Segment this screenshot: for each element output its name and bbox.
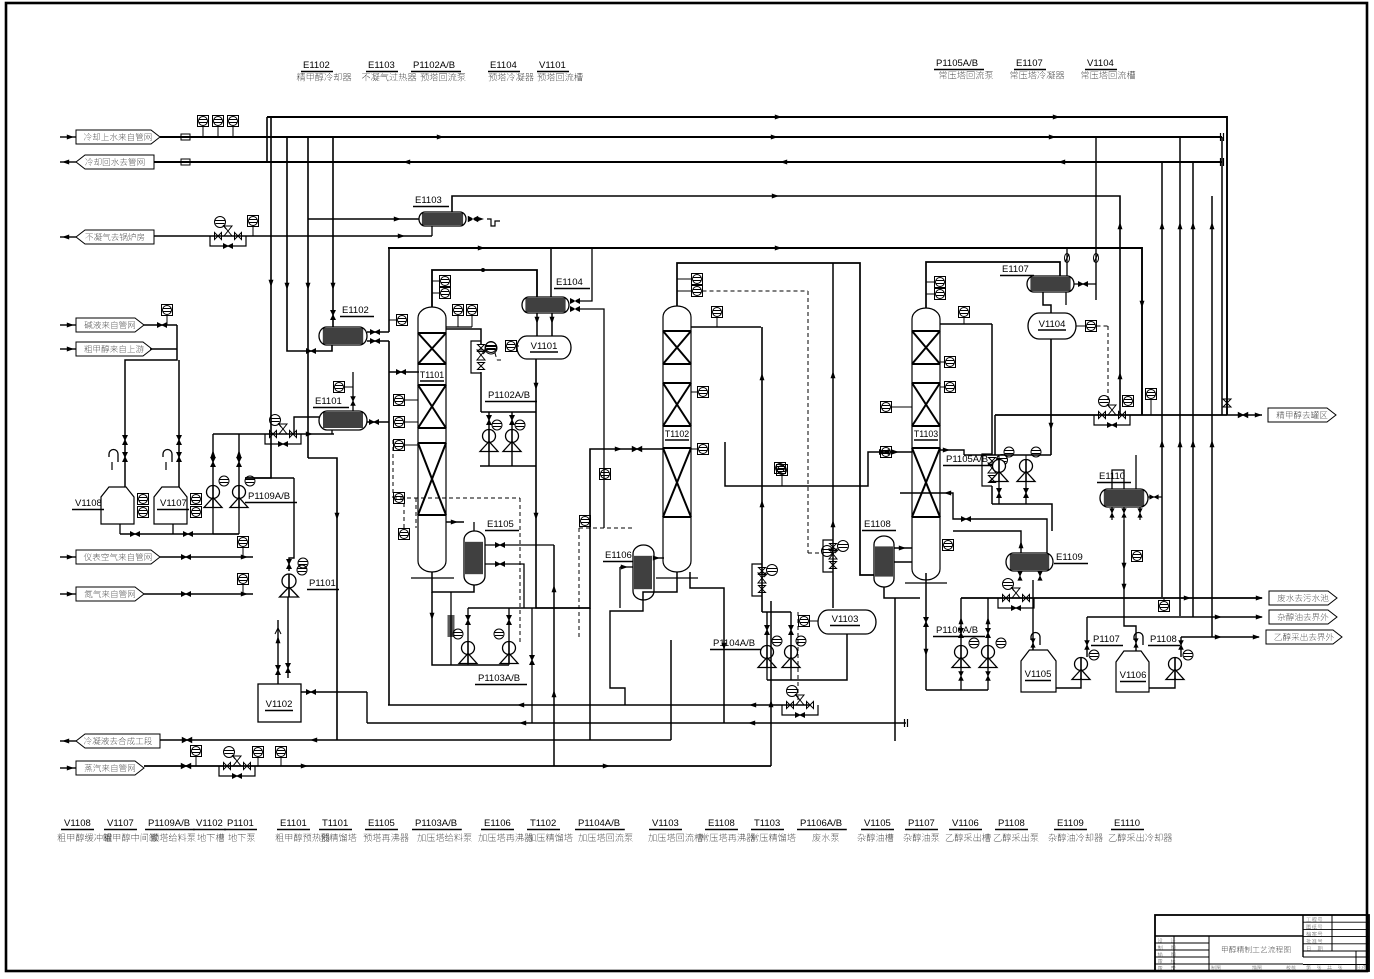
tank V1106 乙醇采出槽 bbox=[1116, 651, 1149, 692]
wire instrument air line bbox=[160, 556, 253, 558]
wire E1101 feed header y434 bbox=[213, 433, 334, 435]
heat exchanger E1105 预塔再沸器 bbox=[464, 531, 485, 585]
wire tank bottoms header bbox=[119, 524, 121, 534]
stream flag 乙醇采出去界外 bbox=[1266, 630, 1342, 644]
svg-text:V1105: V1105 bbox=[1025, 669, 1052, 680]
wire T1101 overhead bbox=[432, 270, 537, 307]
wire E1101 top vent bbox=[352, 372, 354, 411]
wire T1103 reflux riser bbox=[991, 324, 993, 455]
wire T1103 side outlet to pumps bbox=[940, 450, 964, 455]
svg-text:V1106: V1106 bbox=[1120, 670, 1147, 681]
svg-text:V1101: V1101 bbox=[531, 341, 558, 352]
dashes instrument lines center bbox=[393, 497, 520, 499]
svg-text:E1103: E1103 bbox=[368, 60, 395, 71]
svg-text:V1102: V1102 bbox=[266, 699, 293, 710]
wire riser x271 bbox=[266, 117, 268, 162]
svg-text:E1104: E1104 bbox=[490, 60, 517, 71]
wire riser x1212 bbox=[1211, 196, 1213, 637]
svg-text:E1110: E1110 bbox=[1114, 818, 1140, 829]
feed valves bbox=[122, 452, 128, 462]
svg-text:T1103: T1103 bbox=[754, 818, 780, 829]
wire T1102 sidedraw bbox=[691, 326, 761, 328]
wire top vent header y117 bbox=[267, 117, 1227, 415]
svg-text:V1103: V1103 bbox=[832, 614, 859, 625]
stream flag 精甲醇去罐区 bbox=[1268, 408, 1336, 422]
instrument V1104 bbox=[1086, 321, 1097, 332]
svg-text:E1109: E1109 bbox=[1057, 818, 1084, 829]
wire riser x532 bbox=[531, 608, 533, 723]
wire condensate header y723 bbox=[367, 722, 906, 724]
wire E1106 vapor return bbox=[654, 557, 664, 559]
wire P1102 discharge bbox=[488, 412, 490, 429]
wire product line y415 bbox=[994, 415, 996, 455]
wire steam line y766 bbox=[144, 765, 771, 767]
wire T1103 sidedraw bbox=[940, 323, 992, 325]
wire riser x333 to E1102 bbox=[332, 137, 334, 328]
svg-text:V1105: V1105 bbox=[864, 818, 891, 829]
wire T1101 bottom baseline bbox=[411, 577, 454, 579]
instrument V1101 bbox=[506, 341, 517, 352]
wire P1108 discharge to ethanol line bbox=[1180, 637, 1182, 657]
wire E1104 to V1101 bbox=[536, 313, 538, 336]
wire T1103 bottoms bbox=[925, 573, 927, 690]
svg-text:E1102: E1102 bbox=[303, 60, 330, 71]
wire riser jog x308 to x337 bbox=[308, 458, 337, 740]
wire P1106 discharge bbox=[960, 598, 962, 645]
wire E1101 inlet riser bbox=[294, 417, 319, 434]
svg-text:V1102: V1102 bbox=[196, 818, 223, 829]
control valve station bbox=[210, 236, 246, 246]
wire E1107 to V1104 bbox=[1043, 292, 1051, 313]
control valve station bbox=[998, 598, 1034, 608]
wire condensate header y705 bbox=[388, 704, 810, 706]
svg-text:P1105A/B: P1105A/B bbox=[936, 58, 978, 69]
stream flag 仪表空气来自管网 bbox=[76, 550, 160, 564]
wire T1101 reflux bbox=[446, 329, 481, 344]
control valve station bbox=[219, 766, 255, 776]
svg-text:E1105: E1105 bbox=[487, 519, 514, 530]
stream flag 蒸汽来自管网 bbox=[76, 761, 144, 775]
column T1101 预精馏塔 bbox=[418, 307, 446, 572]
wire riser x271 upper bbox=[270, 117, 272, 162]
svg-text:E1105: E1105 bbox=[368, 818, 395, 829]
heat exchanger E1108 常压塔再沸器 bbox=[874, 536, 894, 587]
wire P1109 discharge bbox=[212, 440, 214, 485]
svg-text:E1104: E1104 bbox=[556, 277, 583, 288]
wire T1102 overhead bbox=[677, 263, 874, 575]
vent hooks bbox=[109, 450, 118, 462]
svg-text:P1107: P1107 bbox=[908, 818, 935, 829]
wire E1107 outlet bbox=[1074, 283, 1096, 285]
wire crossover header y486 bbox=[725, 442, 912, 486]
heat exchanger E1101 粗甲醇预热器 bbox=[319, 411, 367, 430]
wire T1101 bottoms to P1103 bbox=[432, 592, 456, 665]
pump P1101 地下泵 bbox=[282, 574, 296, 588]
wire E1109 to V1105 bbox=[1019, 571, 1021, 580]
wire P1106 suction header bbox=[926, 689, 988, 691]
wire riser x1222 bbox=[1221, 137, 1223, 415]
wire V1102 vent riser bbox=[277, 620, 279, 684]
control valve station bbox=[823, 540, 833, 572]
wire E1109 water lines bbox=[953, 531, 1021, 553]
wire forward to pressure column bbox=[536, 449, 660, 608]
instruments T1101 shell bbox=[394, 395, 405, 406]
wire fusel oil line y617 bbox=[1087, 616, 1262, 618]
wire E1108 bottom out bbox=[884, 587, 920, 598]
vertical riser x833 to V1103 bbox=[832, 263, 834, 608]
control valve station bbox=[752, 564, 762, 596]
column T1102 加压精馏塔 bbox=[663, 306, 691, 572]
wire V1105 to P1107 bbox=[1056, 678, 1081, 688]
wire E1101 bottom stub bbox=[331, 430, 333, 434]
heat exchanger E1104 预塔冷凝器 bbox=[522, 297, 569, 313]
svg-text:V1108: V1108 bbox=[75, 498, 102, 509]
svg-text:V1104: V1104 bbox=[1039, 319, 1066, 330]
wire E1101 outlet bbox=[367, 421, 389, 423]
svg-text:P1106A/B: P1106A/B bbox=[936, 625, 978, 636]
wire E1106 feed side bbox=[620, 566, 633, 568]
svg-text:P1108: P1108 bbox=[998, 818, 1025, 829]
svg-text:E1103: E1103 bbox=[415, 195, 442, 206]
wire V1103 outlet to P1104 bbox=[767, 634, 847, 680]
control valve station bbox=[471, 341, 481, 373]
svg-text:V1104: V1104 bbox=[1087, 58, 1114, 69]
wire T1101 feed line bbox=[389, 371, 419, 373]
wire E1103 inlet bbox=[308, 218, 419, 220]
tank V1108 粗甲醇缓冲罐 bbox=[101, 487, 134, 524]
wire header y248 bbox=[388, 248, 1142, 415]
column T1103 常压精馏塔 bbox=[912, 308, 940, 580]
stream flag 冷却回水去管网 bbox=[76, 155, 154, 169]
wire P1102 suction header bbox=[480, 465, 536, 467]
heat exchanger E1109 杂醇油冷却器 bbox=[1006, 553, 1053, 571]
stream flag 碱液来自管网 bbox=[76, 318, 144, 332]
wire E1110 bottom outlets bbox=[1111, 507, 1113, 520]
svg-text:P1104A/B: P1104A/B bbox=[578, 818, 620, 829]
wire P1107 discharge to fusel line bbox=[1086, 617, 1088, 657]
svg-text:P1104A/B: P1104A/B bbox=[713, 638, 755, 649]
control valve station bbox=[782, 705, 818, 715]
svg-text:V1107: V1107 bbox=[107, 818, 134, 829]
instruments T1102 top bbox=[692, 274, 703, 285]
wire E1103 drain bbox=[431, 226, 433, 236]
wire riser x1162 bbox=[1161, 162, 1163, 597]
wire T1102 feed entry bbox=[660, 448, 664, 450]
wire P1104 discharge bbox=[766, 612, 768, 645]
wire P1105 suction header bbox=[964, 454, 1051, 456]
svg-text:E1106: E1106 bbox=[605, 550, 632, 561]
wire E1102 right nozzles bbox=[367, 331, 389, 333]
wire ethanol line y637 bbox=[1181, 636, 1259, 638]
wire E1106 bottom bbox=[610, 600, 643, 705]
stream flag 杂醇油去界外 bbox=[1269, 610, 1337, 624]
wire cooling return header y162 bbox=[154, 161, 1222, 163]
control valve station bbox=[1094, 415, 1130, 425]
wire E1110 feed bbox=[1112, 470, 1124, 489]
svg-text:E1106: E1106 bbox=[484, 818, 511, 829]
instrument PI cluster bbox=[198, 116, 209, 127]
tank V1102 地下槽 bbox=[258, 684, 301, 722]
instruments T1101 overhead bbox=[440, 276, 451, 287]
svg-text:E1101: E1101 bbox=[280, 818, 307, 829]
vessel V1101 预塔回流槽 bbox=[517, 336, 571, 359]
svg-text:V1108: V1108 bbox=[64, 818, 91, 829]
heat exchanger E1107 常压塔冷凝器 bbox=[1027, 276, 1074, 292]
svg-text:P1107: P1107 bbox=[1093, 634, 1120, 645]
tank V1107 粗甲醇中间罐 bbox=[154, 487, 187, 524]
control valve station bbox=[982, 454, 992, 486]
stream flag 氮气来自管网 bbox=[76, 587, 144, 601]
svg-text:E1108: E1108 bbox=[864, 519, 891, 530]
wire riser x1193 bbox=[1192, 162, 1194, 617]
title text 甲醇精制工艺流程图 bbox=[1222, 946, 1290, 953]
heat exchanger E1103 bbox=[419, 212, 466, 226]
wire P1105 discharge header bbox=[998, 482, 1000, 504]
stream flag 废水去污水池 bbox=[1269, 591, 1337, 605]
vessel V1104 常压塔回流槽 bbox=[1028, 313, 1076, 339]
svg-text:E1107: E1107 bbox=[1002, 264, 1029, 275]
wire V1102 outlet bbox=[301, 691, 367, 693]
svg-text:E1101: E1101 bbox=[315, 396, 342, 407]
svg-text:E1109: E1109 bbox=[1056, 552, 1083, 563]
wire T1101 bottoms to E1105 bbox=[432, 572, 474, 592]
svg-text:P1108: P1108 bbox=[1150, 634, 1177, 645]
wire steam riser x771 bbox=[770, 601, 772, 766]
svg-text:P1102A/B: P1102A/B bbox=[488, 390, 530, 401]
svg-text:P1109A/B: P1109A/B bbox=[148, 818, 190, 829]
svg-text:P1103A/B: P1103A/B bbox=[478, 673, 520, 684]
valve on product line bbox=[1223, 399, 1231, 407]
wire steam trap leg bbox=[450, 592, 452, 665]
control valve station bbox=[265, 434, 301, 444]
wire V1104 down to pumps bbox=[1050, 339, 1052, 455]
wire V1101 down bbox=[535, 359, 537, 466]
wire steam riser x554 bbox=[553, 545, 555, 766]
svg-text:T1101: T1101 bbox=[322, 818, 348, 829]
wire waste water line y598 bbox=[961, 597, 1262, 599]
heat exchanger E1102 精甲醇冷却器 bbox=[319, 327, 367, 345]
wire V1106 to P1108 bbox=[1149, 678, 1175, 688]
dashed right of T1101 bbox=[392, 440, 394, 498]
wire P1109 discharge header to y434 bbox=[212, 434, 214, 440]
svg-text:E1102: E1102 bbox=[342, 305, 369, 316]
svg-text:P1102A/B: P1102A/B bbox=[413, 60, 455, 71]
instruments T1103 shell bbox=[945, 357, 956, 368]
wire T1102 bottoms to E1106 bbox=[643, 572, 677, 600]
wire E1105 side outlets bbox=[485, 544, 554, 546]
svg-text:P1109A/B: P1109A/B bbox=[248, 491, 290, 502]
wire P1103 discharge bbox=[467, 608, 469, 641]
wire P1101 suction bbox=[287, 597, 289, 678]
wire T1102 bottoms forward bbox=[690, 572, 724, 723]
svg-text:V1101: V1101 bbox=[539, 60, 566, 71]
wire riser x590 bottom bbox=[589, 608, 591, 740]
wire riser x294 to P1101 bbox=[245, 477, 294, 479]
stream flag 冷却上水来自管网 bbox=[76, 130, 160, 144]
svg-text:P1101: P1101 bbox=[309, 578, 336, 589]
stream flag 不凝气去锅炉房 bbox=[76, 230, 154, 244]
wire riser x287 to E1102 bbox=[287, 137, 332, 351]
heat exchanger E1106 加压塔再沸器 bbox=[633, 545, 654, 600]
wire E1110 water stubs bbox=[1148, 496, 1162, 498]
wire riser x1180 bbox=[1179, 137, 1181, 616]
svg-text:V1103: V1103 bbox=[652, 818, 679, 829]
tank V1105 杂醇油槽 bbox=[1021, 650, 1056, 692]
wire nitrogen line bbox=[144, 593, 253, 595]
wire P1103 suction bbox=[456, 664, 509, 666]
wire crude methanol feed line bbox=[150, 348, 177, 350]
wire non-condensable line y237 bbox=[154, 235, 432, 237]
wire riser x389 bbox=[388, 248, 390, 332]
wire T1102 reflux riser bbox=[761, 327, 763, 612]
wire T1103 overhead bbox=[926, 262, 1060, 308]
wire E1103 outlet vent bbox=[468, 216, 478, 222]
svg-text:T1103: T1103 bbox=[914, 429, 938, 439]
wire riser x308 bbox=[307, 137, 309, 458]
orifice risers E1107 bbox=[1066, 248, 1068, 276]
wire E1105 vapor return bbox=[446, 521, 464, 523]
wire E1104 vent riser bbox=[550, 248, 552, 297]
stream flag 冷凝液去合成工段 bbox=[76, 734, 160, 748]
vessel V1103 加压塔回流槽 bbox=[818, 610, 876, 634]
svg-text:T1102: T1102 bbox=[530, 818, 556, 829]
svg-text:P1106A/B: P1106A/B bbox=[800, 818, 842, 829]
wire E1108 to T1103 bbox=[894, 547, 912, 549]
svg-text:V1106: V1106 bbox=[952, 818, 979, 829]
wire condensate to synthesis y740 bbox=[160, 739, 671, 741]
svg-text:T1102: T1102 bbox=[665, 429, 689, 439]
wire E1104 right nozzles bbox=[570, 298, 580, 304]
instruments T1103 top bbox=[935, 277, 946, 288]
svg-text:P1103A/B: P1103A/B bbox=[415, 818, 457, 829]
stream flag 粗甲醇来自上游 bbox=[76, 342, 152, 356]
svg-text:T1101: T1101 bbox=[420, 370, 444, 380]
svg-text:P1101: P1101 bbox=[227, 818, 254, 829]
svg-text:V1107: V1107 bbox=[160, 498, 187, 509]
svg-text:E1107: E1107 bbox=[1016, 58, 1043, 69]
wire header y196 bbox=[452, 196, 1120, 415]
instruments T1102 shell bbox=[698, 387, 709, 398]
wire cooling supply header y137 bbox=[160, 136, 1222, 138]
title block bbox=[1155, 915, 1369, 971]
heat exchanger E1110 乙醇采出冷却器 bbox=[1100, 489, 1148, 507]
wire caustic line bbox=[144, 324, 177, 326]
svg-text:E1108: E1108 bbox=[708, 818, 735, 829]
